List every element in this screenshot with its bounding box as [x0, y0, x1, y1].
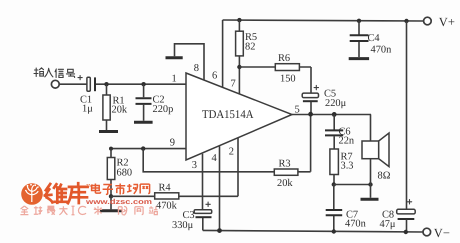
wire to C7 — [333, 185, 335, 232]
svg-text:3.3: 3.3 — [341, 161, 354, 172]
long wire V+ rail to C8 — [406, 21, 408, 209]
ground below R1 — [99, 130, 118, 133]
svg-text:1: 1 — [172, 74, 177, 85]
svg-text:R4: R4 — [159, 183, 172, 194]
svg-text:V+: V+ — [439, 15, 455, 29]
capacitor C6 — [325, 114, 355, 146]
node at C2 — [141, 82, 145, 86]
node C4/rail — [357, 19, 361, 23]
watermark bottom row 全球最大IC采购网站 — [20, 206, 157, 215]
ground below C4 — [349, 57, 369, 60]
svg-text:470n: 470n — [371, 45, 393, 56]
node C8-branch/rail — [404, 19, 408, 23]
svg-text:47μ: 47μ — [380, 219, 396, 230]
ground below speaker — [361, 198, 379, 201]
V+ top rail — [223, 20, 424, 21]
watermark 维库 (big) — [45, 183, 88, 203]
wire input to C1 — [59, 83, 87, 85]
resistor R7 — [330, 136, 354, 184]
output wire pin5 — [292, 114, 371, 116]
resistor R2 — [107, 149, 132, 197]
resistor R5 — [236, 20, 258, 67]
node C8/rail — [404, 230, 408, 234]
op-amp U1 TDA1514A — [186, 73, 292, 160]
wire R7 to speaker bottom — [334, 184, 371, 186]
watermark 电子市场网 (medium) — [92, 184, 150, 195]
capacitor C7 — [326, 210, 367, 230]
pin 8 wire and ground — [175, 44, 205, 81]
svg-text:470n: 470n — [345, 219, 367, 230]
ground pin8 — [166, 56, 183, 59]
svg-text:82: 82 — [245, 42, 255, 53]
ground below C2 — [134, 121, 153, 124]
pin 6 wire to V+ rail — [222, 20, 224, 88]
wire C1 to pin1 — [96, 83, 186, 85]
pin 9 wire — [111, 148, 186, 150]
pin 2 wire — [237, 138, 239, 196]
svg-text:330μ: 330μ — [172, 220, 194, 231]
resistor R6 — [239, 53, 311, 93]
input terminal — [51, 80, 59, 88]
svg-text:9: 9 — [170, 137, 175, 148]
input signal label (Chinese strokes) — [34, 68, 75, 78]
svg-text:7: 7 — [231, 79, 236, 90]
svg-text:680: 680 — [117, 168, 133, 179]
wire R2 to ground — [110, 196, 112, 209]
watermark logo (dandelion disc) — [21, 183, 43, 205]
V- terminal — [423, 228, 431, 236]
svg-text:20k: 20k — [277, 178, 293, 189]
node at R1 — [104, 82, 108, 86]
svg-text:1μ: 1μ — [82, 104, 93, 115]
svg-text:8: 8 — [194, 63, 199, 74]
svg-text:www.dzsc.com: www.dzsc.com — [85, 197, 152, 206]
capacitor C2 — [136, 84, 174, 121]
feedback wire from pin9 to R3 — [143, 149, 274, 172]
svg-text:R3: R3 — [279, 159, 291, 170]
capacitor C8 — [380, 200, 416, 232]
pin 3 wire — [202, 154, 204, 210]
node pin9/R2 — [109, 147, 113, 151]
capacitor C3 — [172, 202, 212, 231]
resistor R4 — [111, 183, 238, 212]
capacitor C4 — [350, 21, 392, 57]
svg-text:2: 2 — [229, 147, 234, 158]
svg-text:8Ω: 8Ω — [378, 171, 391, 182]
node speaker bottom — [368, 182, 372, 186]
V+ terminal — [424, 17, 432, 25]
svg-text:470k: 470k — [156, 201, 178, 212]
capacitor C5 — [302, 85, 346, 114]
svg-text:6: 6 — [212, 71, 217, 82]
svg-text:22n: 22n — [339, 136, 355, 147]
svg-text:20k: 20k — [112, 105, 128, 116]
bottom rail to V- — [203, 230, 423, 232]
svg-text:5: 5 — [295, 104, 300, 115]
svg-text:C4: C4 — [368, 33, 381, 44]
ground below R2 — [100, 209, 122, 212]
svg-text:4: 4 — [212, 153, 218, 164]
node R5/rail — [237, 18, 241, 22]
node pin4/rail — [217, 228, 222, 233]
resistor R3 — [274, 114, 310, 189]
node R5/R6/pin7 — [237, 65, 241, 69]
node R7 bottom — [332, 182, 336, 186]
node R2/R4 — [109, 194, 113, 198]
node C7/rail — [332, 229, 336, 233]
resistor R1 — [103, 84, 128, 130]
pin 7 wire — [238, 67, 240, 94]
pin 4 wire — [219, 146, 221, 231]
node C6/out — [332, 112, 337, 117]
speaker BL1 — [362, 114, 391, 197]
svg-text:3: 3 — [192, 160, 197, 171]
svg-text:150: 150 — [280, 74, 296, 85]
node pin9/feedback — [141, 146, 145, 150]
capacitor C1 — [78, 76, 95, 115]
svg-text:220μ: 220μ — [325, 98, 347, 109]
svg-text:R6: R6 — [278, 53, 290, 64]
node C5/out — [308, 112, 313, 117]
svg-text:V−: V− — [434, 226, 450, 240]
svg-text:TDA1514A: TDA1514A — [202, 107, 254, 121]
svg-text:220p: 220p — [153, 104, 174, 115]
